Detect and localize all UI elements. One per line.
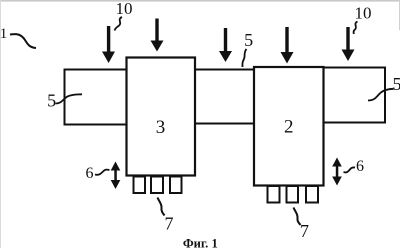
leader from 10 top-right	[354, 22, 358, 35]
leg 7b under block 3	[151, 177, 163, 194]
block 2	[254, 67, 324, 186]
svg-text:2: 2	[284, 116, 294, 137]
leader from 5 middle	[242, 49, 246, 67]
double arrow 6 left	[111, 162, 121, 190]
block 3	[127, 58, 196, 176]
svg-text:7: 7	[165, 214, 174, 234]
svg-text:7: 7	[300, 221, 309, 241]
middle strip top wire	[195, 69, 256, 71]
svg-text:6: 6	[86, 165, 94, 182]
leg 7c under block 3	[170, 177, 182, 194]
leg 7f under block 2	[306, 186, 318, 203]
down arrow 1	[102, 26, 115, 63]
svg-text:6: 6	[356, 158, 364, 175]
svg-text:5: 5	[393, 74, 400, 94]
leader from 7 right	[294, 208, 301, 226]
right strip section 5	[324, 68, 386, 123]
svg-text:5: 5	[244, 30, 253, 50]
down arrow 4	[281, 27, 294, 64]
svg-text:1: 1	[0, 26, 7, 42]
left strip section 5	[65, 70, 128, 125]
leg 7d under block 2	[268, 186, 280, 203]
scan border right top	[399, 0, 400, 30]
leader from 6 left	[95, 170, 110, 175]
leader from 5 left	[56, 94, 83, 103]
leader from 6 right	[344, 167, 356, 172]
svg-text:5: 5	[47, 90, 56, 110]
leader from 1	[10, 34, 36, 48]
middle strip bottom wire	[195, 123, 256, 125]
leader from 5 right	[368, 89, 394, 101]
scan border top	[0, 0, 400, 2]
leader from 7 left	[158, 198, 165, 216]
svg-text:3: 3	[156, 117, 166, 138]
svg-text:10: 10	[355, 4, 372, 23]
down arrow 2	[151, 19, 164, 52]
leg 7a under block 3	[134, 177, 146, 194]
leader from 10 top-left	[115, 17, 123, 31]
svg-text:Фиг. 1: Фиг. 1	[183, 236, 218, 248]
down arrow 5	[342, 27, 355, 61]
scan border left	[0, 0, 1, 248]
double arrow 6 right	[332, 158, 342, 186]
leg 7e under block 2	[287, 186, 299, 203]
svg-text:10: 10	[116, 0, 133, 18]
down arrow 3	[219, 28, 232, 62]
